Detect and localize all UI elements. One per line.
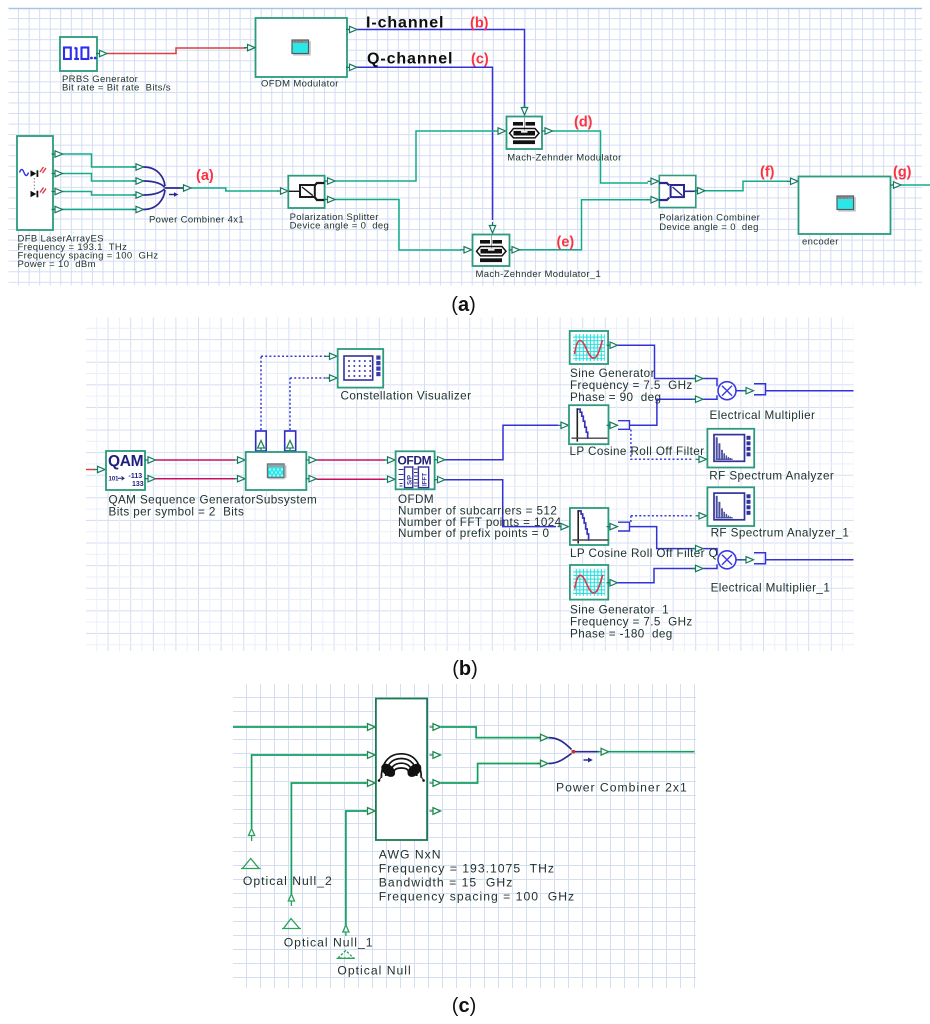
svg-text:Device angle = 0 deg: Device angle = 0 deg	[659, 222, 759, 233]
svg-text:(a): (a)	[451, 294, 475, 316]
svg-text:AWG NxN: AWG NxN	[379, 848, 442, 862]
svg-text:Constellation Visualizer: Constellation Visualizer	[341, 390, 472, 403]
svg-text:-113: -113	[129, 473, 143, 480]
svg-text:Power Combiner 4x1: Power Combiner 4x1	[149, 215, 244, 226]
svg-text:(d): (d)	[574, 115, 593, 131]
svg-text:Phase = -180 deg: Phase = -180 deg	[570, 628, 673, 641]
svg-text:Optical Null: Optical Null	[337, 963, 411, 977]
svg-text:Power = 10 dBm: Power = 10 dBm	[18, 259, 96, 270]
svg-text:(c): (c)	[452, 995, 476, 1017]
svg-text:101: 101	[109, 477, 120, 483]
svg-text:(f): (f)	[760, 165, 775, 181]
svg-text:RF Spectrum Analyzer: RF Spectrum Analyzer	[709, 469, 834, 482]
svg-text:(b): (b)	[452, 658, 478, 680]
svg-text:Phase = 90 deg: Phase = 90 deg	[570, 391, 661, 404]
svg-text:Frequency = 193.1075 THz: Frequency = 193.1075 THz	[379, 862, 555, 876]
svg-text:S/P: S/P	[407, 475, 414, 485]
svg-text:Number of prefix points = 0: Number of prefix points = 0	[398, 527, 550, 540]
svg-text:Power Combiner 2x1: Power Combiner 2x1	[556, 780, 688, 794]
svg-text:OFDM Modulator: OFDM Modulator	[261, 79, 339, 90]
svg-text:LP Cosine Roll Off Filter I: LP Cosine Roll Off Filter I	[570, 445, 712, 458]
svg-text:(e): (e)	[557, 235, 575, 251]
svg-text:(g): (g)	[893, 165, 912, 181]
svg-text:Q-channel: Q-channel	[367, 51, 453, 68]
svg-text:Frequency spacing = 100 GHz: Frequency spacing = 100 GHz	[379, 890, 575, 904]
svg-text:133: 133	[132, 481, 144, 488]
svg-text:Electrical Multiplier: Electrical Multiplier	[710, 409, 816, 422]
svg-text:(c): (c)	[471, 52, 489, 68]
svg-text:Bit rate = Bit rate Bits/s: Bit rate = Bit rate Bits/s	[62, 83, 171, 94]
svg-text:QAM: QAM	[108, 453, 143, 470]
svg-text:(b): (b)	[470, 16, 489, 32]
svg-text:RF Spectrum Analyzer_1: RF Spectrum Analyzer_1	[711, 526, 850, 539]
svg-text:Electrical Multiplier_1: Electrical Multiplier_1	[711, 581, 831, 594]
svg-text:encoder: encoder	[802, 237, 839, 248]
svg-text:Optical Null_2: Optical Null_2	[243, 874, 333, 888]
svg-text:Mach-Zehnder Modulator_1: Mach-Zehnder Modulator_1	[476, 269, 602, 280]
svg-text:IFFT: IFFT	[421, 473, 428, 486]
svg-text:(a): (a)	[196, 168, 214, 184]
svg-text:OFDM: OFDM	[398, 453, 432, 467]
svg-text:Bits per symbol = 2 Bits: Bits per symbol = 2 Bits	[109, 505, 245, 518]
svg-text:Bandwidth = 15 GHz: Bandwidth = 15 GHz	[379, 876, 514, 890]
svg-text:I-channel: I-channel	[366, 15, 444, 32]
svg-text:Device angle = 0 deg: Device angle = 0 deg	[290, 221, 390, 232]
svg-text:Optical Null_1: Optical Null_1	[284, 935, 374, 949]
svg-text:Mach-Zehnder Modulator: Mach-Zehnder Modulator	[507, 153, 621, 164]
